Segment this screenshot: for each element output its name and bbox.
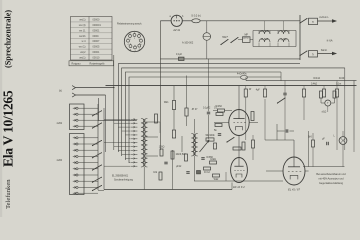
svg-text:℗200: ℗200 [57,159,63,162]
svg-text:(Sprechzentrale): (Sprechzentrale) [4,10,13,68]
svg-text:μF12: μF12 [176,166,182,168]
svg-text:Gegentaktverstärkung: Gegentaktverstärkung [319,182,344,185]
svg-text:AZ 41: AZ 41 [172,28,180,32]
svg-text:00000: 00000 [93,18,101,21]
svg-text:ws(2: ws(2 [80,51,86,54]
svg-text:Tr: Tr [312,21,314,24]
svg-text:℗1Ω: ℗1Ω [322,111,327,114]
svg-text:t/1,5kΩ: t/1,5kΩ [261,38,269,41]
svg-text:ws(1): ws(1) [79,57,85,60]
svg-text:A-100-002: A-100-002 [182,42,194,45]
svg-text:Wk2: Wk2 [214,179,219,181]
svg-text:Rotgrau: Rotgrau [72,63,82,66]
svg-text:00001: 00001 [93,29,101,32]
svg-text:℗262: ℗262 [57,122,63,125]
svg-text:ws/1b: ws/1b [79,35,86,38]
svg-text:8: 8 [139,49,140,51]
svg-text:JP 47: JP 47 [192,109,199,111]
svg-text:100Ω: 100Ω [159,146,165,148]
svg-text:MP: MP [244,34,248,36]
svg-text:zu/zum L: zu/zum L [319,17,329,19]
svg-text:Wk/100k: Wk/100k [205,135,215,137]
svg-text:s/1,5kΩ: s/1,5kΩ [261,31,269,33]
svg-text:0000i: 0000i [93,35,100,38]
svg-text:℗ 6A: ℗ 6A [327,39,333,43]
svg-text:(t AB): (t AB) [281,38,287,41]
svg-text:Dr 12: Dr 12 [204,171,210,174]
svg-text:Bei ausschwenkbarem und: Bei ausschwenkbarem und [316,173,346,176]
svg-text:ws(1): ws(1) [79,18,85,21]
svg-text:Tr: Tr [312,53,314,56]
svg-text:Relaissteuerung ansch.: Relaissteuerung ansch. [117,23,142,26]
svg-text:w 4: w 4 [82,40,87,43]
svg-text:00001: 00001 [93,51,101,54]
svg-text:4: 4 [127,44,128,46]
svg-text:00005: 00005 [93,46,101,49]
svg-text:4μF: 4μF [256,90,261,92]
svg-text:EL 41 / 87: EL 41 / 87 [288,187,300,191]
svg-text:00007: 00007 [93,40,101,43]
svg-text:10kΩ: 10kΩ [210,159,216,161]
svg-text:sw (4): sw (4) [79,24,86,27]
svg-text:Sämtl.: Sämtl. [321,49,328,52]
svg-text:0,1μF2: 0,1μF2 [203,108,211,110]
svg-text:0,4kΩ: 0,4kΩ [311,83,317,85]
svg-text:Dr40: Dr40 [339,77,345,80]
svg-text:Sonderanfertigung: Sonderanfertigung [114,179,134,182]
svg-text:'6027': '6027' [222,37,229,39]
svg-text:Dr412: Dr412 [314,77,321,80]
svg-text:(Si k): (Si k) [243,38,249,40]
svg-text:EL 2908SB-601: EL 2908SB-601 [112,176,129,178]
svg-text:0,1m: 0,1m [336,83,341,85]
svg-text:ws 11: ws 11 [79,29,86,32]
svg-text:EF 12 K 2: EF 12 K 2 [233,185,245,189]
svg-text:Si 0,2 (tr): Si 0,2 (tr) [191,15,201,18]
svg-text:000001: 000001 [93,24,102,27]
svg-text:6: 6 [130,49,131,51]
svg-text:ws (1): ws (1) [79,46,86,49]
svg-text:Telefunken: Telefunken [5,179,12,209]
svg-text:Wk1: Wk1 [164,102,169,104]
svg-text:00010: 00010 [93,57,101,60]
svg-text:2: 2 [134,38,135,40]
svg-text:Ela V 10/1265: Ela V 10/1265 [1,90,16,167]
svg-text:mit 40% Ausnutzur und: mit 40% Ausnutzur und [318,178,344,181]
svg-text:(k): (k) [59,90,62,93]
svg-text:Rotweissgelb: Rotweissgelb [90,63,105,66]
svg-text:7: 7 [134,51,135,53]
svg-text:4×Dr/40s: 4×Dr/40s [237,73,247,76]
svg-text:0,1μF: 0,1μF [176,54,183,56]
